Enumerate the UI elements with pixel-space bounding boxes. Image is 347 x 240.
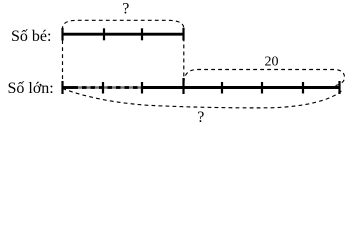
- svg-text:?: ?: [197, 109, 204, 126]
- bottom bar tick 1: [102, 82, 104, 94]
- top bar tick 2: [141, 28, 143, 40]
- bottom bar tick 6: [302, 82, 304, 94]
- top bar end tick left: [61, 28, 63, 41]
- bottom bar right solid segment: [142, 86, 340, 89]
- bottom bar tick 5: [261, 82, 263, 94]
- top bar tick 1: [103, 28, 105, 40]
- bottom bar end tick right: [338, 81, 340, 94]
- dashed brace around top bar extending to bottom bar: [63, 20, 184, 86]
- dashed brace under bottom bar (total ?): [63, 89, 343, 108]
- bottom bar tick 4: [221, 82, 223, 94]
- bottom bar dashed overlay: [78, 86, 142, 89]
- svg-text:Số bé:: Số bé:: [11, 28, 51, 45]
- svg-text:Số lớn:: Số lớn:: [8, 80, 54, 97]
- bottom bar tall tick (20 boundary): [182, 78, 184, 94]
- bottom bar gray underlay: [78, 86, 142, 88]
- top bar end tick right: [182, 28, 184, 41]
- bottom bar end tick left: [61, 81, 63, 94]
- svg-text:20: 20: [265, 55, 279, 70]
- bottom bar left solid segment: [63, 86, 79, 89]
- bottom bar tick 2: [141, 82, 143, 94]
- top bar (Số bé): [63, 33, 184, 36]
- svg-text:?: ?: [122, 1, 129, 18]
- dashed brace for 20 over right part of bottom bar: [184, 70, 345, 87]
